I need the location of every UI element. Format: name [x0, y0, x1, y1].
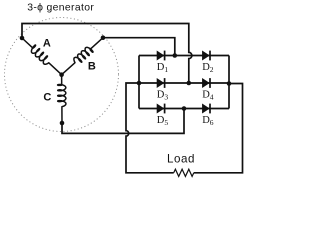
svg-text:A: A	[43, 37, 51, 49]
diode D6	[202, 104, 210, 114]
svg-text:C: C	[43, 91, 51, 103]
node: left rail tap	[137, 81, 142, 86]
svg-text:Load: Load	[167, 153, 195, 166]
diode D4	[202, 78, 210, 88]
winding C (generator coil)	[58, 75, 66, 123]
wire: right rail to load	[194, 84, 243, 173]
node: wye center	[59, 72, 64, 77]
generator boundary (dotted circle)	[5, 18, 119, 132]
svg-text:3-ϕ generator: 3-ϕ generator	[27, 2, 94, 13]
wire: phase C terminal down, right and up to D5-D6 junction	[62, 109, 184, 134]
diode D1	[157, 51, 165, 61]
node: phase C terminal	[60, 121, 65, 126]
node: D3-D4 junction	[187, 81, 192, 86]
wire: bridge row 2 (D3-D4)	[139, 82, 229, 84]
wire: bridge row 1 (D1-D2)	[139, 55, 229, 57]
node: D1-D2 junction	[173, 53, 178, 58]
wire: phase A terminal up and across to D3-D4 junction (with hop over row 1)	[22, 24, 192, 84]
svg-text:B: B	[88, 61, 96, 73]
wire: left rail (negative bus)	[138, 56, 140, 109]
wire: phase B terminal across and down to D1-D2 junction	[103, 38, 175, 56]
winding A (generator coil)	[22, 38, 62, 75]
resistor: Load	[174, 169, 194, 176]
diode D5	[157, 104, 165, 114]
node: D5-D6 junction	[182, 106, 187, 111]
node: right rail tap	[227, 81, 232, 86]
node: phase A terminal	[20, 36, 25, 41]
diode D3	[157, 78, 165, 88]
wire: bridge row 3 (D5-D6)	[139, 108, 229, 110]
winding B (generator coil)	[62, 38, 103, 75]
diode D2	[202, 51, 210, 61]
wire: right rail (positive bus)	[228, 56, 230, 109]
wire: left rail to load (hops over phase C wire)	[126, 83, 174, 173]
node: phase B terminal	[101, 35, 106, 40]
